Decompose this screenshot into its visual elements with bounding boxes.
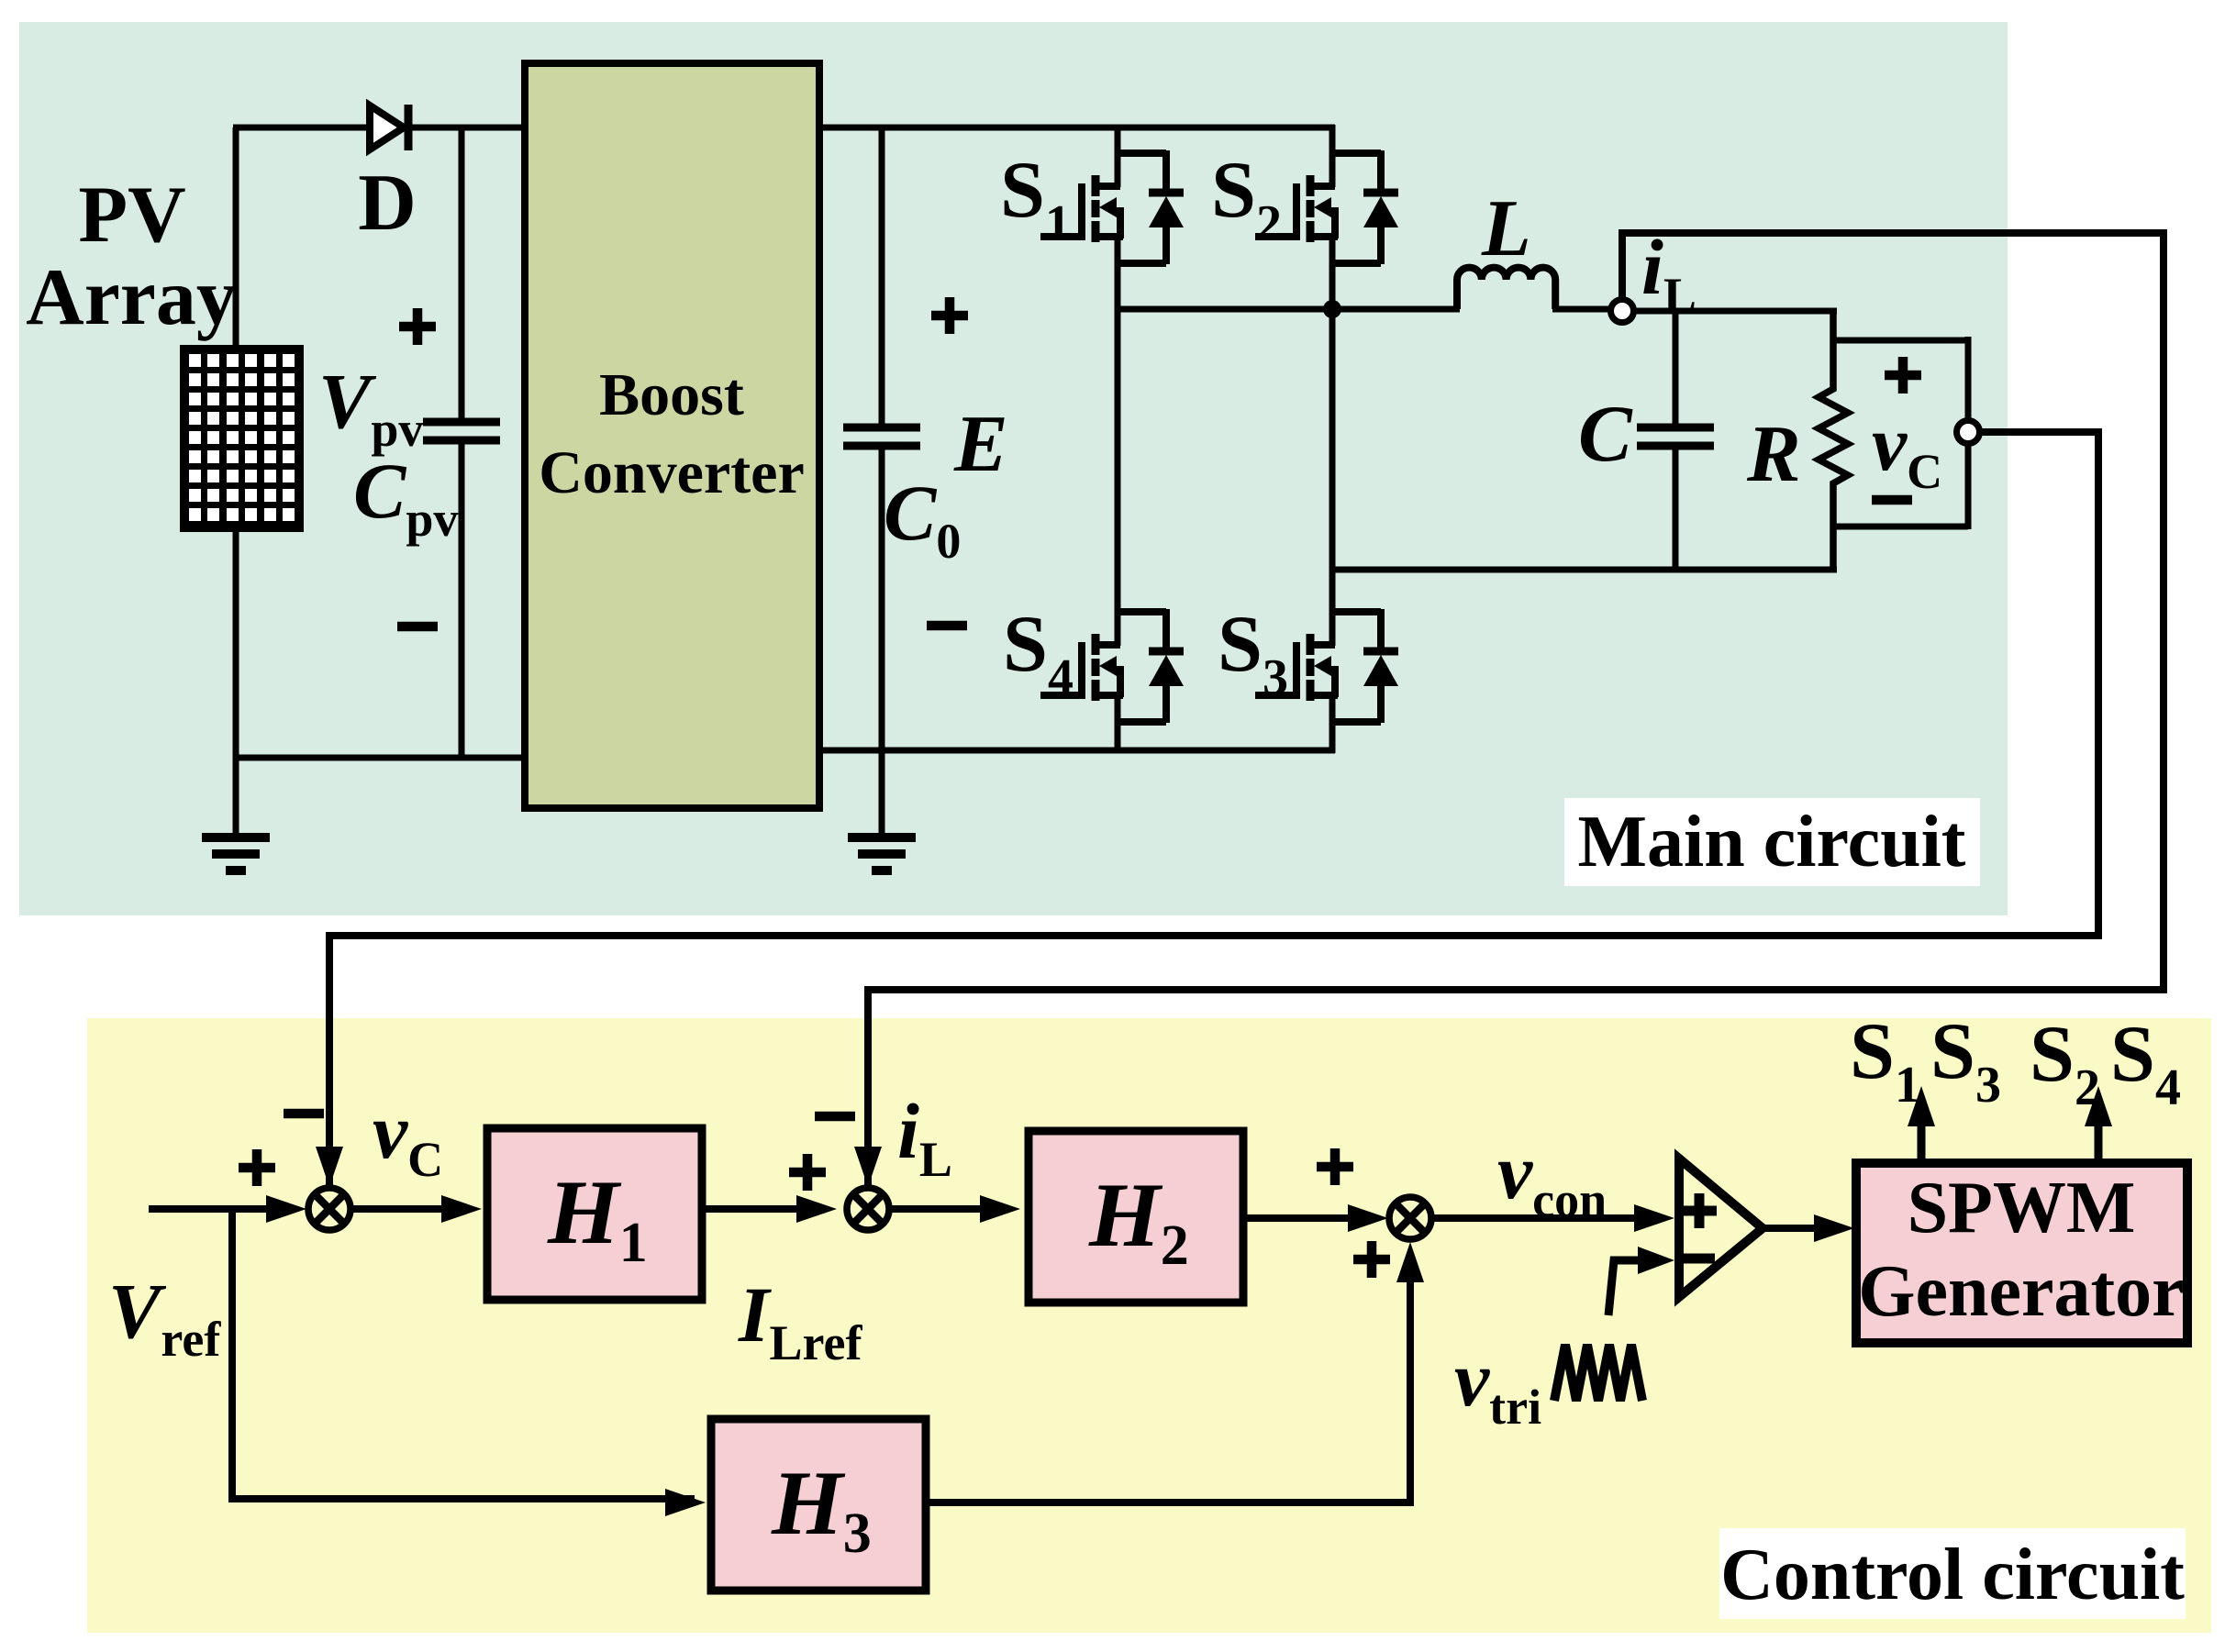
control circuit region background: [87, 1018, 2211, 1633]
arrow vC into junction 1: [316, 1147, 343, 1187]
wire Vref branch to H3: [232, 1209, 695, 1499]
wire bridge output rail: [1115, 306, 1460, 313]
wire comparator output: [1761, 1225, 1842, 1232]
label plus junction 3 lower: [1353, 1241, 1390, 1278]
svg-text:SPWM: SPWM: [1908, 1168, 2136, 1248]
arrow into summing junction 3: [1348, 1204, 1388, 1232]
svg-text:D: D: [358, 159, 417, 248]
label plus vC: [1885, 357, 1921, 394]
wire vC feedback: [329, 432, 2098, 1187]
arrow S2 S4 output: [2085, 1086, 2112, 1126]
wire top rail PV to diode: [233, 125, 370, 131]
summing junction 1 (vC): [308, 1188, 350, 1230]
label minus junction 2: [815, 1112, 855, 1122]
wire right bridge leg lower: [1329, 694, 1336, 753]
wire SPWM output S2 S4: [2095, 1101, 2103, 1163]
svg-text:L: L: [1481, 184, 1531, 273]
capacitor C: [1637, 311, 1714, 572]
label Main circuit: [1564, 798, 1980, 886]
wire iL feedback: [868, 233, 2164, 1187]
wire H1 to junction 2: [702, 1205, 826, 1213]
resistor R: [1819, 311, 1848, 570]
wire top rail diode to boost: [406, 125, 528, 131]
label plus junction 3 upper: [1317, 1148, 1353, 1185]
transfer block H2: [1029, 1131, 1243, 1303]
label minus Cpv: [397, 622, 438, 632]
iL sensor node: [1611, 300, 1634, 323]
diode D: [370, 105, 408, 150]
PV array panel: [180, 345, 304, 532]
wire bottom rail left: [233, 755, 528, 761]
arrow iL into junction 2: [854, 1147, 882, 1187]
inductor L: [1457, 268, 1555, 309]
comparator: [1679, 1159, 1763, 1297]
label plus Vpv: [399, 308, 436, 345]
wire junction 2 to H2: [888, 1205, 1009, 1213]
transistor S1: [1040, 150, 1184, 264]
ground (PV side): [202, 758, 270, 870]
label minus junction 1: [284, 1109, 324, 1119]
wire left bridge leg middle: [1115, 236, 1121, 646]
triangle wave symbol vtri: [1554, 1345, 1642, 1401]
wire left bridge leg lower: [1115, 694, 1121, 753]
svg-text:Control circuit: Control circuit: [1720, 1535, 2185, 1615]
main circuit region background: [19, 22, 2008, 915]
wire inductor to iL sensor: [1552, 306, 1612, 313]
wire junction 3 to comparator: [1430, 1214, 1661, 1222]
label minus vC: [1872, 495, 1912, 505]
boost converter block: [525, 63, 819, 808]
arrow into summing junction 2: [796, 1195, 837, 1223]
wire PV top lead: [233, 128, 239, 348]
wire Vref input: [149, 1205, 295, 1213]
summing junction 3 (vtri): [1389, 1197, 1431, 1239]
capacitor C0: [843, 128, 920, 750]
wire H2 to junction 3: [1243, 1214, 1377, 1222]
label Control circuit: [1719, 1528, 2186, 1619]
arrow vtri into junction 3: [1396, 1242, 1424, 1282]
label plus E: [931, 297, 968, 334]
wire PV bottom lead: [233, 529, 239, 760]
arrow into H2: [980, 1195, 1020, 1223]
svg-text:Converter: Converter: [539, 439, 805, 506]
svg-text:C: C: [1578, 390, 1633, 479]
transistor S2: [1255, 150, 1398, 264]
svg-text:Main circuit: Main circuit: [1578, 802, 1966, 882]
wire H3 output to junction 3: [927, 1253, 1410, 1502]
ground (C0 side): [848, 750, 916, 870]
label plus junction 2: [789, 1154, 826, 1191]
wire iL sensor to load: [1633, 308, 1837, 315]
wire bottom rail right: [816, 748, 1335, 754]
SPWM generator block: [1856, 1163, 2187, 1343]
vC sensor node: [1957, 421, 1980, 444]
capacitor Cpv: [423, 128, 500, 760]
arrow into H3: [665, 1489, 706, 1516]
arrow into comparator minus: [1638, 1247, 1674, 1274]
svg-text:E: E: [953, 400, 1008, 489]
junction dot bridge output: [1323, 300, 1341, 318]
svg-text:Generator: Generator: [1858, 1251, 2184, 1332]
arrow into comparator plus: [1634, 1204, 1674, 1232]
wire right bridge leg middle: [1329, 236, 1336, 646]
summing junction 2 (iL): [847, 1188, 889, 1230]
transfer block H1: [487, 1128, 702, 1300]
arrow into H1: [441, 1195, 482, 1223]
label plus junction 1: [239, 1149, 275, 1186]
arrow S1 S3 output: [1908, 1086, 1935, 1126]
svg-text:Boost: Boost: [599, 361, 744, 428]
transfer block H3: [711, 1419, 926, 1591]
wire SPWM output S1 S3: [1918, 1101, 1926, 1163]
wire right bridge leg upper: [1329, 125, 1336, 187]
wire left bridge leg upper: [1115, 125, 1121, 187]
transistor S3: [1255, 609, 1398, 723]
arrow into SPWM generator: [1814, 1214, 1854, 1242]
wire vtri stub to comparator: [1608, 1260, 1639, 1315]
wire top rail boost to bridge: [816, 125, 1335, 131]
svg-text:Array: Array: [26, 253, 237, 342]
wire load bottom rail: [1332, 567, 1837, 573]
vC sense branch: [1833, 337, 1968, 529]
svg-text:R: R: [1746, 410, 1801, 499]
transistor S4: [1040, 609, 1184, 723]
svg-text:PV: PV: [78, 171, 185, 260]
arrow into summing junction 1: [266, 1195, 306, 1223]
label minus E: [927, 621, 967, 631]
wire junction 1 to H1: [350, 1205, 471, 1213]
